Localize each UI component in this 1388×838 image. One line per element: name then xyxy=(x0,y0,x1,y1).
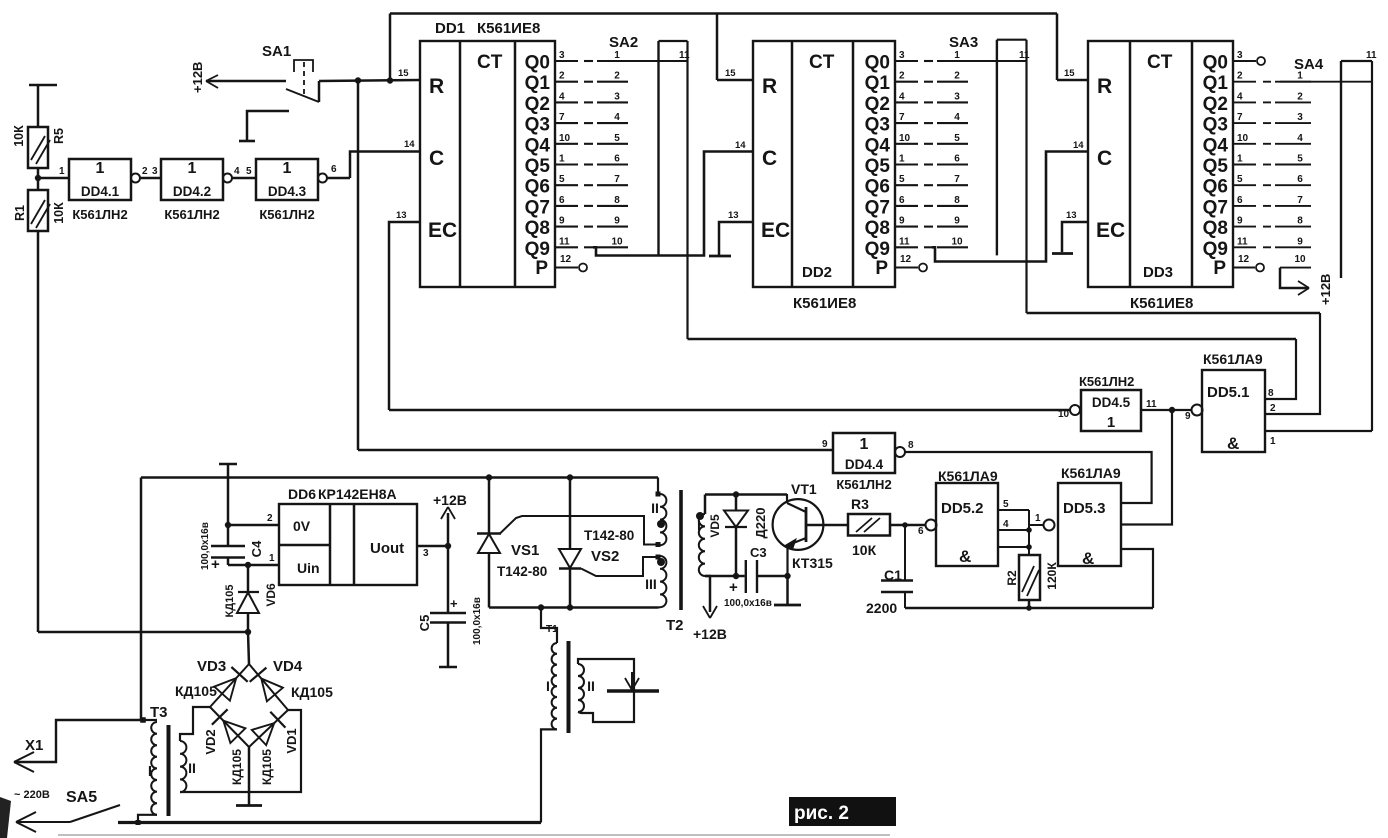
SA4 row contact lines from DD3 Q1..Q9 xyxy=(1233,81,1256,83)
svg-text:R3: R3 xyxy=(851,496,869,512)
figure label рис. 2 xyxy=(789,797,896,826)
wire VS1 gate to T2 winding II xyxy=(500,516,655,545)
svg-text:5: 5 xyxy=(559,174,565,185)
svg-text:VD1: VD1 xyxy=(284,728,299,753)
svg-text:8: 8 xyxy=(954,195,960,206)
wire SA2 common output down to long AND wire xyxy=(686,41,688,339)
svg-text:3: 3 xyxy=(423,548,429,559)
svg-text:II: II xyxy=(651,500,659,516)
resistor R3 10К xyxy=(806,524,848,527)
svg-text:6: 6 xyxy=(1237,195,1243,206)
svg-text:Q8: Q8 xyxy=(865,218,890,239)
transformer T1 core xyxy=(567,641,571,733)
svg-text:6: 6 xyxy=(1297,174,1303,185)
svg-text:+12В: +12В xyxy=(433,492,467,508)
svg-text:1: 1 xyxy=(59,166,65,177)
svg-text:I: I xyxy=(148,763,152,780)
svg-text:4: 4 xyxy=(954,112,960,123)
svg-text:R: R xyxy=(762,75,777,98)
svg-text:3: 3 xyxy=(152,166,158,177)
svg-text:Q5: Q5 xyxy=(865,156,891,177)
svg-text:R: R xyxy=(1097,75,1112,98)
svg-text:SA2: SA2 xyxy=(609,34,638,51)
wire DD4.4 output to DD5.3 upper input xyxy=(905,452,1152,503)
svg-text:10: 10 xyxy=(1058,409,1070,420)
wire top reset rail xyxy=(390,12,1057,14)
svg-text:6: 6 xyxy=(559,195,565,206)
svg-text:КД105: КД105 xyxy=(291,684,333,700)
svg-text:+12В: +12В xyxy=(190,62,205,93)
svg-text:Q7: Q7 xyxy=(865,197,890,218)
wire DD4.2 out to DD4.3 in, pins 4,5 xyxy=(232,177,256,180)
wire SA1 node down to DD4.4 input line xyxy=(357,80,360,450)
svg-text:DD4.3: DD4.3 xyxy=(268,184,307,199)
svg-text:Q1: Q1 xyxy=(1203,73,1229,94)
svg-text:КД105: КД105 xyxy=(260,749,274,785)
svg-text:Q8: Q8 xyxy=(1203,218,1228,239)
wire T1 primary bottom to mains bottom wire xyxy=(541,729,557,822)
svg-text:КР142ЕН8А: КР142ЕН8А xyxy=(318,486,397,502)
resistor R5 (10K trimmer) with top terminal bar xyxy=(29,84,57,87)
wire top rail down to DD3 R pin 15 xyxy=(1056,14,1059,81)
svg-text:10: 10 xyxy=(1294,254,1306,265)
pin 12 P output of DD3 with open circle xyxy=(1233,267,1255,269)
wire DD6 pin1 Uin xyxy=(228,564,279,567)
svg-text:К561ИЕ8: К561ИЕ8 xyxy=(477,20,540,37)
svg-text:11: 11 xyxy=(1237,236,1248,247)
bottom rail of thyristor block xyxy=(489,606,658,608)
wire SA2 common long net to DD5.1 pin 8 xyxy=(688,338,1297,340)
svg-text:Q0: Q0 xyxy=(1203,53,1228,74)
svg-text:5: 5 xyxy=(899,174,905,185)
svg-text:Q3: Q3 xyxy=(1203,115,1228,136)
svg-text:Q3: Q3 xyxy=(865,115,890,136)
svg-text:15: 15 xyxy=(1064,68,1075,79)
svg-text:К561ЛА9: К561ЛА9 xyxy=(938,468,998,484)
svg-text:10: 10 xyxy=(899,133,911,144)
diode VD2 (bridge arm) xyxy=(212,709,228,724)
svg-text:9: 9 xyxy=(954,216,960,227)
svg-text:Q0: Q0 xyxy=(865,53,890,74)
transformer T2 winding I xyxy=(696,512,704,520)
page edge artifacts xyxy=(58,834,890,836)
svg-text:I: I xyxy=(546,678,550,694)
svg-text:Т1: Т1 xyxy=(546,624,558,635)
diode VD5 Д220 xyxy=(733,491,739,497)
svg-text:10К: 10К xyxy=(852,542,877,558)
svg-text:+: + xyxy=(729,579,738,596)
svg-text:13: 13 xyxy=(728,210,739,221)
svg-text:Q9: Q9 xyxy=(1203,239,1228,260)
svg-text:Q3: Q3 xyxy=(525,115,550,136)
diode VD6 КД105 xyxy=(245,562,251,568)
svg-text:5: 5 xyxy=(1003,499,1009,510)
svg-text:X1: X1 xyxy=(25,737,43,754)
svg-text:R2: R2 xyxy=(1005,570,1019,586)
wire DD5.3 lower input to timing rail xyxy=(1121,549,1153,608)
svg-text:14: 14 xyxy=(404,139,415,150)
svg-text:12: 12 xyxy=(1238,254,1250,265)
wire R3 to DD5.2 output circle xyxy=(890,524,926,527)
svg-text:2: 2 xyxy=(899,71,905,82)
svg-text:Uout: Uout xyxy=(370,540,404,557)
SA4 position 10 to +12В arrow xyxy=(1280,267,1311,269)
transformer T3 secondary II to bridge xyxy=(180,741,186,792)
svg-text:14: 14 xyxy=(735,140,746,151)
capacitor C5 to ground xyxy=(447,546,450,613)
svg-text:2: 2 xyxy=(1297,91,1303,102)
svg-text:DD4.1: DD4.1 xyxy=(81,184,120,199)
svg-text:Q5: Q5 xyxy=(1203,156,1229,177)
svg-text:2: 2 xyxy=(559,71,565,82)
svg-text:2: 2 xyxy=(1237,71,1243,82)
svg-text:Q2: Q2 xyxy=(865,94,890,115)
svg-text:2: 2 xyxy=(614,71,620,82)
svg-text:2: 2 xyxy=(142,166,148,177)
thyristor VS1 Т142-80 xyxy=(486,474,492,480)
svg-text:Q4: Q4 xyxy=(525,135,551,156)
svg-text:Т142-80: Т142-80 xyxy=(497,564,547,579)
svg-text:100,0х16в: 100,0х16в xyxy=(200,522,211,570)
svg-text:13: 13 xyxy=(396,210,407,221)
connector X1 arrow xyxy=(14,720,141,762)
svg-text:Д220: Д220 xyxy=(753,508,768,539)
svg-text:11: 11 xyxy=(899,236,910,247)
svg-text:+12В: +12В xyxy=(1318,274,1333,305)
svg-text:DD2: DD2 xyxy=(802,264,832,281)
svg-text:1: 1 xyxy=(1270,436,1276,447)
svg-text:DD1: DD1 xyxy=(435,20,465,37)
svg-text:9: 9 xyxy=(614,216,620,227)
transformer T2 winding III (gate drive) xyxy=(656,555,661,560)
svg-text:6: 6 xyxy=(899,195,905,206)
DD3 EC pin 13 to ground xyxy=(1062,222,1088,252)
wire R1 bottom down left side to bridge node xyxy=(37,231,40,632)
mains bottom wire xyxy=(118,821,541,824)
svg-text:P: P xyxy=(535,258,548,279)
node bridge + output xyxy=(245,629,251,635)
wire SA3 position1 to common xyxy=(937,60,1027,62)
SA1 lower contact to chassis xyxy=(247,111,289,140)
svg-text:C: C xyxy=(429,147,444,170)
svg-text:5: 5 xyxy=(954,133,960,144)
svg-text:11: 11 xyxy=(1366,50,1377,61)
DD2 EC pin 13 to ground xyxy=(719,222,753,255)
wire DD4.3 output pin 6 to DD1 clock input C xyxy=(327,177,350,180)
transformer T1 secondary II and output loop xyxy=(578,664,584,712)
svg-text:4: 4 xyxy=(1297,133,1303,144)
pin 12 P output of DD1 with open circle xyxy=(555,267,578,269)
svg-text:5: 5 xyxy=(614,133,620,144)
SA4 common bar xyxy=(1340,61,1342,278)
svg-text:4: 4 xyxy=(614,112,620,123)
svg-text:Q7: Q7 xyxy=(1203,197,1228,218)
timing bottom rail C1/R2/DD5.3 xyxy=(905,607,1153,609)
wire SA4 common output down to DD5.1 pin 1 xyxy=(1371,61,1373,431)
svg-text:Q9: Q9 xyxy=(865,239,890,260)
svg-text:5: 5 xyxy=(1237,174,1243,185)
wire DD4.5 output pin 11 to junction xyxy=(1141,409,1192,411)
power arrow +12В at DD6 output xyxy=(447,513,450,546)
wire VS2 gate to T2 winding III xyxy=(581,557,655,576)
svg-text:EC: EC xyxy=(761,219,790,242)
svg-text:100,0х16в: 100,0х16в xyxy=(724,598,772,609)
svg-text:9: 9 xyxy=(1297,236,1303,247)
svg-text:III: III xyxy=(645,576,657,592)
svg-text:II: II xyxy=(587,678,595,694)
svg-text:14: 14 xyxy=(1073,140,1084,151)
svg-text:Q7: Q7 xyxy=(525,197,550,218)
svg-text:Q6: Q6 xyxy=(865,177,890,198)
ground at VT1 emitter xyxy=(784,573,790,579)
svg-text:7: 7 xyxy=(559,112,565,123)
svg-text:15: 15 xyxy=(725,68,736,79)
capacitor C1 2200 xyxy=(904,525,906,580)
svg-text:7: 7 xyxy=(1237,112,1243,123)
svg-text:1: 1 xyxy=(860,436,869,453)
svg-text:7: 7 xyxy=(614,174,620,185)
svg-text:Q0: Q0 xyxy=(525,53,550,74)
svg-text:P: P xyxy=(875,258,888,279)
svg-text:VD2: VD2 xyxy=(203,729,218,754)
diode VD1 (bridge arm) xyxy=(270,712,285,728)
svg-text:SA3: SA3 xyxy=(949,34,978,51)
svg-text:К561ЛА9: К561ЛА9 xyxy=(1203,351,1263,367)
svg-text:КД105: КД105 xyxy=(224,585,236,618)
svg-text:10К: 10К xyxy=(12,125,26,147)
svg-text:EC: EC xyxy=(1096,219,1125,242)
capacitor C3 100,0x16в in bottom rail xyxy=(705,575,745,578)
wire T3 II top to bridge left vertex xyxy=(180,707,210,741)
wire SA3 common output down then right to DD5.1 pin 2 net xyxy=(1025,40,1027,313)
svg-text:Q6: Q6 xyxy=(525,177,550,198)
svg-text:9: 9 xyxy=(1237,216,1243,227)
svg-text:1: 1 xyxy=(559,154,565,165)
svg-text:10К: 10К xyxy=(52,202,66,224)
resistor R1 (10K trimmer) xyxy=(28,190,48,231)
svg-text:К561ИЕ8: К561ИЕ8 xyxy=(793,295,856,312)
svg-text:8: 8 xyxy=(1297,216,1303,227)
svg-text:0V: 0V xyxy=(293,518,311,534)
svg-text:4: 4 xyxy=(559,91,565,102)
svg-text:Т2: Т2 xyxy=(666,617,684,634)
svg-text:DD5.1: DD5.1 xyxy=(1207,384,1250,401)
svg-text:DD4.4: DD4.4 xyxy=(845,457,884,472)
inverter DD4.3 (К561ЛН2) xyxy=(256,159,318,200)
svg-text:12: 12 xyxy=(560,254,572,265)
svg-text:DD4.2: DD4.2 xyxy=(173,184,211,199)
wire +12 rail left edge down to T3 xyxy=(140,478,143,721)
svg-text:13: 13 xyxy=(1066,210,1077,221)
pin 12 P output of DD2 with open circle xyxy=(895,267,918,269)
wire SA1 long net to DD4.4 input pin 9 xyxy=(358,449,833,451)
svg-text:1: 1 xyxy=(614,50,620,61)
svg-text:CT: CT xyxy=(1147,52,1173,73)
svg-text:9: 9 xyxy=(899,216,905,227)
transformer T3 primary I xyxy=(140,717,146,723)
svg-text:&: & xyxy=(1082,549,1094,568)
wire T2 winding I top rail to VT1 collector xyxy=(705,493,787,496)
svg-text:Q4: Q4 xyxy=(1203,135,1229,156)
svg-text:1: 1 xyxy=(1297,71,1303,82)
svg-text:4: 4 xyxy=(1237,91,1243,102)
svg-text:VS1: VS1 xyxy=(511,542,539,559)
svg-text:VT1: VT1 xyxy=(791,481,817,497)
svg-text:9: 9 xyxy=(559,216,565,227)
svg-text:+: + xyxy=(211,556,220,573)
svg-text:Q5: Q5 xyxy=(525,156,551,177)
svg-text:10: 10 xyxy=(611,236,623,247)
svg-text:3: 3 xyxy=(559,50,565,61)
diode VD3 (bridge arm) xyxy=(231,667,247,682)
svg-text:С4: С4 xyxy=(249,540,264,557)
chassis symbol on +12 rail xyxy=(219,463,237,466)
wire DD1 EC long net to DD4.5 input xyxy=(389,409,1070,411)
transformer T1 primary I from thyristor rail xyxy=(538,604,544,610)
svg-text:С3: С3 xyxy=(750,545,767,560)
counter DD3 (К561ИЕ8 decade counter CT) xyxy=(1088,41,1233,287)
svg-text:11: 11 xyxy=(1146,399,1157,410)
wire DD4.1 out to DD4.2 in, pins 2,3 xyxy=(140,177,161,180)
capacitor C4 100,0x16в xyxy=(227,478,230,547)
inverter DD4.2 (К561ЛН2) xyxy=(161,159,223,200)
svg-text:6: 6 xyxy=(954,154,960,165)
svg-text:II: II xyxy=(188,760,196,776)
svg-text:Q1: Q1 xyxy=(525,73,551,94)
svg-text:1: 1 xyxy=(1107,414,1115,431)
svg-text:К561ЛН2: К561ЛН2 xyxy=(259,207,314,222)
svg-text:К561ИЕ8: К561ИЕ8 xyxy=(1130,295,1193,312)
wire SA4 common net to DD5.1 pin 1 xyxy=(1265,430,1372,432)
DD5.2 input pins 5,4 bracket xyxy=(998,509,1029,511)
svg-text:120К: 120К xyxy=(1045,562,1059,590)
svg-text:3: 3 xyxy=(954,91,960,102)
svg-text:Q2: Q2 xyxy=(1203,94,1228,115)
transformer T3 core xyxy=(167,725,171,816)
svg-text:4: 4 xyxy=(899,91,905,102)
node junction R5/R1 to DD4.1 input pin 1 xyxy=(35,175,41,181)
svg-text:1: 1 xyxy=(96,160,105,177)
svg-text:1: 1 xyxy=(188,160,197,177)
svg-text:К561ЛН2: К561ЛН2 xyxy=(1079,374,1134,389)
svg-text:5: 5 xyxy=(1297,154,1303,165)
svg-text:1: 1 xyxy=(899,154,905,165)
svg-text:рис. 2: рис. 2 xyxy=(794,803,849,824)
inverter DD4.4 (К561ЛН2) xyxy=(833,433,895,473)
svg-text:4: 4 xyxy=(1003,519,1009,530)
svg-text:С5: С5 xyxy=(417,615,432,632)
svg-text:I: I xyxy=(697,517,701,533)
svg-text:10: 10 xyxy=(951,236,963,247)
counter DD2 (К561ИЕ8 decade counter CT) xyxy=(753,41,895,287)
transformer T2 winding II (gate drive) xyxy=(658,478,660,495)
svg-text:2200: 2200 xyxy=(866,600,897,616)
svg-text:7: 7 xyxy=(954,174,960,185)
svg-text:11: 11 xyxy=(559,236,570,247)
svg-text:С1: С1 xyxy=(884,567,902,583)
svg-text:9: 9 xyxy=(822,439,828,450)
inverter DD4.1 (К561ЛН2) xyxy=(69,159,131,200)
counter DD1 (К561ИЕ8 decade counter CT) xyxy=(420,41,555,287)
svg-text:R1: R1 xyxy=(13,205,27,221)
svg-text:P: P xyxy=(1213,258,1226,279)
wire SA3 common long net to DD5.1 pin 2 xyxy=(1027,312,1321,314)
svg-text:DD3: DD3 xyxy=(1143,264,1173,281)
wire DD5.2 inputs to DD5.3 output circle xyxy=(1029,524,1044,526)
svg-text:4: 4 xyxy=(234,166,240,177)
svg-text:1: 1 xyxy=(954,50,960,61)
svg-text:6: 6 xyxy=(918,526,924,537)
svg-text:&: & xyxy=(959,547,971,566)
svg-text:Q2: Q2 xyxy=(525,94,550,115)
svg-text:Q8: Q8 xyxy=(525,218,550,239)
svg-text:8: 8 xyxy=(1268,388,1274,399)
svg-text:КД105: КД105 xyxy=(230,749,244,785)
svg-text:3: 3 xyxy=(1297,112,1303,123)
DD3 Q0 pin 3 stub with open circle xyxy=(1233,60,1256,62)
svg-text:15: 15 xyxy=(398,68,409,79)
svg-text:C: C xyxy=(1097,147,1112,170)
svg-text:SA1: SA1 xyxy=(262,43,291,60)
wire DD6 output pin3 to +12В node xyxy=(417,545,448,548)
wire T3 II bottom to bridge right vertex xyxy=(180,710,301,792)
svg-text:CT: CT xyxy=(477,52,503,73)
svg-text:2: 2 xyxy=(954,71,960,82)
wire +12 top rail of thyristor block xyxy=(141,476,658,478)
transistor VT1 КТ315 (NPN) xyxy=(773,499,824,550)
wire SA2 position1 to common xyxy=(597,60,688,62)
svg-text:1: 1 xyxy=(283,160,292,177)
svg-text:КТ315: КТ315 xyxy=(792,555,833,571)
svg-text:DD4.5: DD4.5 xyxy=(1092,395,1131,410)
svg-text:К561ЛН2: К561ЛН2 xyxy=(164,207,219,222)
diode VD4 (bridge arm) xyxy=(250,668,267,682)
svg-text:C: C xyxy=(762,147,777,170)
svg-text:VD5: VD5 xyxy=(708,514,722,538)
svg-text:11: 11 xyxy=(1019,50,1030,61)
svg-text:VD3: VD3 xyxy=(197,658,226,675)
svg-text:К561ЛН2: К561ЛН2 xyxy=(836,477,891,492)
node SA1 output junctions xyxy=(355,77,361,83)
svg-text:100,0х16в: 100,0х16в xyxy=(472,597,483,645)
svg-text:12: 12 xyxy=(900,254,912,265)
svg-text:3: 3 xyxy=(899,50,905,61)
wire DD6 pin2 0V xyxy=(228,524,279,527)
svg-text:К561ЛН2: К561ЛН2 xyxy=(72,207,127,222)
SA2 common bar xyxy=(657,41,659,256)
svg-text:VS2: VS2 xyxy=(591,548,619,565)
svg-text:К561ЛА9: К561ЛА9 xyxy=(1061,465,1121,481)
svg-text:CT: CT xyxy=(809,52,835,73)
wire DD1 Q9 pin11 to DD2 clock C pin14 xyxy=(593,152,753,256)
svg-text:DD5.2: DD5.2 xyxy=(941,500,984,517)
svg-text:&: & xyxy=(1227,434,1239,453)
wire junction down to DD5.3 middle input xyxy=(1121,410,1172,525)
svg-text:10: 10 xyxy=(1237,133,1249,144)
svg-text:Q1: Q1 xyxy=(865,73,891,94)
svg-text:5: 5 xyxy=(246,166,252,177)
wire top rail down to DD2 R pin 15 xyxy=(716,14,719,81)
svg-text:1: 1 xyxy=(269,553,275,564)
svg-text:~ 220В: ~ 220В xyxy=(14,789,50,801)
svg-text:7: 7 xyxy=(899,112,905,123)
svg-text:КД105: КД105 xyxy=(175,683,217,699)
svg-text:3: 3 xyxy=(614,91,620,102)
svg-text:Q6: Q6 xyxy=(1203,177,1228,198)
svg-text:6: 6 xyxy=(614,154,620,165)
svg-text:2: 2 xyxy=(1270,403,1276,414)
thyristor VS2 Т142-80 xyxy=(567,474,573,480)
